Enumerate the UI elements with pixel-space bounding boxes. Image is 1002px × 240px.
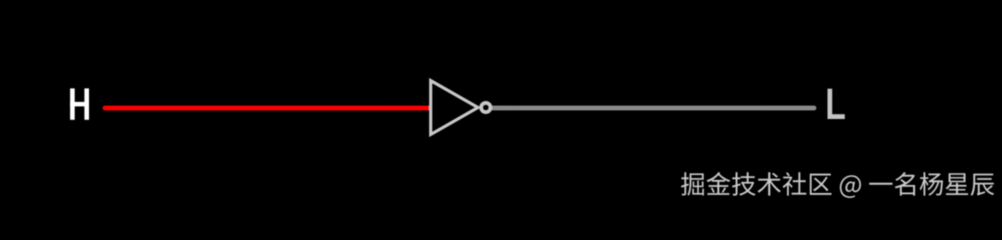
watermark: 掘金技术社区 @ 一名杨星辰 (681, 172, 994, 198)
wire: input net H (red wire from H to inverter input) (105, 106, 429, 111)
node L : output logic-low label (828, 89, 845, 119)
inverter U1 (NOT gate triangle) (431, 81, 478, 135)
bubble: inversion circle on U1 output (481, 103, 490, 112)
node H : input logic-high label (70, 88, 89, 119)
wire: output net L (gray wire from bubble to L) (493, 106, 814, 111)
